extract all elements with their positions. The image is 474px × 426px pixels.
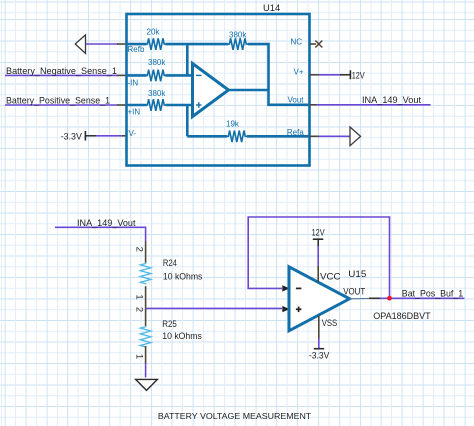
svg-text:10 kOhms: 10 kOhms: [162, 331, 202, 341]
svg-text:VOUT: VOUT: [343, 287, 365, 297]
svg-text:-IN: -IN: [128, 79, 139, 88]
wire feedback loop: [248, 217, 389, 297]
svg-text:U14: U14: [263, 3, 280, 13]
svg-text:19k: 19k: [226, 120, 240, 129]
svg-text:1: 1: [134, 294, 145, 299]
wire -IN row: [127, 74, 147, 77]
plus mark U15: [296, 307, 302, 313]
wire vertical inv node: [186, 44, 189, 75]
power port 12V (V+ pin of U14): [310, 70, 366, 80]
port flag Refa (right-pointing): [310, 127, 361, 146]
svg-text:380k: 380k: [148, 89, 166, 98]
svg-text:2: 2: [134, 307, 145, 312]
wire 20k to 380k: [166, 43, 229, 46]
pin wire R25 top: [145, 308, 147, 326]
wire 380k to corner, down to Vout: [248, 44, 310, 105]
svg-text:Vout: Vout: [287, 96, 304, 105]
svg-text:+IN: +IN: [128, 108, 141, 117]
wire U15 output: [350, 297, 465, 300]
wire op-amp output: [229, 89, 269, 92]
svg-text:NC: NC: [290, 37, 302, 46]
svg-text:380k: 380k: [148, 58, 166, 67]
svg-text:OPA186DBVT: OPA186DBVT: [373, 311, 431, 321]
svg-text:R24: R24: [163, 258, 177, 268]
wire +IN row: [127, 104, 147, 107]
resistor 20k: [146, 28, 166, 50]
svg-text:Refb: Refb: [128, 45, 145, 54]
minus mark: [196, 74, 202, 76]
wire to non-inverting input: [166, 104, 194, 107]
pin NC stub with no-connect X: [310, 41, 323, 48]
svg-text:VCC: VCC: [320, 272, 341, 282]
power port 12V (VCC of U15): [312, 227, 326, 282]
svg-text:Battery_Positive_Sense_1: Battery_Positive_Sense_1: [6, 95, 110, 106]
input arrow +: [282, 306, 289, 312]
wire vertical noninv node: [186, 105, 189, 136]
minus mark U15: [296, 287, 302, 289]
power port -3.3V (V- pin of U14): [61, 131, 127, 142]
wire divider junction to +IN of U15: [146, 307, 282, 309]
op-amp triangle inside U14: [193, 64, 229, 117]
svg-text:V-: V-: [129, 129, 137, 138]
resistor 380k (feedback): [228, 31, 248, 50]
op-amp U14 body rectangle: [127, 14, 310, 166]
wire INA_149_Vout (bottom circuit): [55, 227, 146, 242]
pin wire R24 bottom: [145, 286, 147, 308]
resistor R25: [140, 319, 202, 348]
svg-text:U15: U15: [348, 269, 366, 279]
svg-text:R25: R25: [162, 319, 177, 329]
svg-text:2: 2: [134, 247, 145, 252]
svg-text:12V: 12V: [312, 227, 326, 237]
svg-text:VSS: VSS: [322, 318, 338, 328]
resistor 19k: [226, 120, 247, 143]
wire to ground: [145, 363, 147, 378]
wire Battery_Positive_Sense_1: [5, 104, 127, 106]
junction dot: [387, 296, 392, 301]
ground symbol: [136, 379, 158, 390]
wire 19k to Refa pin: [247, 135, 310, 138]
svg-text:-3.3V: -3.3V: [309, 351, 330, 361]
svg-text:INA_149_Vout: INA_149_Vout: [77, 218, 136, 229]
op-amp U15 triangle: [289, 267, 350, 331]
wire INA_149_Vout (from Vout pin): [310, 104, 431, 106]
power port -3.3V (VSS of U15): [309, 316, 330, 361]
resistor 380k (-IN): [146, 58, 166, 81]
svg-text:Battery_Negative_Sense_1: Battery_Negative_Sense_1: [6, 66, 117, 77]
svg-text:380k: 380k: [229, 31, 247, 40]
svg-text:10 kOhms: 10 kOhms: [163, 272, 203, 282]
svg-text:-3.3V: -3.3V: [61, 132, 83, 142]
wire Battery_Negative_Sense_1: [5, 74, 127, 76]
resistor R24: [140, 258, 202, 284]
pin wire R24 top: [145, 242, 147, 263]
wire internal top (Refb row): [127, 43, 147, 46]
port flag Refb (left-pointing): [75, 35, 126, 54]
svg-text:INA_149_Vout: INA_149_Vout: [362, 95, 421, 106]
pin wire R25 bottom: [145, 346, 147, 364]
svg-text:BATTERY VOLTAGE MEASUREMENT: BATTERY VOLTAGE MEASUREMENT: [158, 411, 311, 421]
svg-text:1: 1: [134, 354, 145, 359]
svg-text:12V: 12V: [352, 70, 366, 80]
input arrow -: [282, 285, 289, 291]
plus mark: [196, 102, 202, 108]
svg-text:Bat_Pos_Buf_1: Bat_Pos_Buf_1: [402, 288, 463, 299]
wire bottom row to 19k: [187, 135, 227, 138]
wire to inverting input: [166, 74, 194, 77]
svg-text:V+: V+: [293, 67, 303, 76]
resistor 380k (+IN): [146, 89, 166, 111]
svg-text:20k: 20k: [147, 28, 161, 37]
